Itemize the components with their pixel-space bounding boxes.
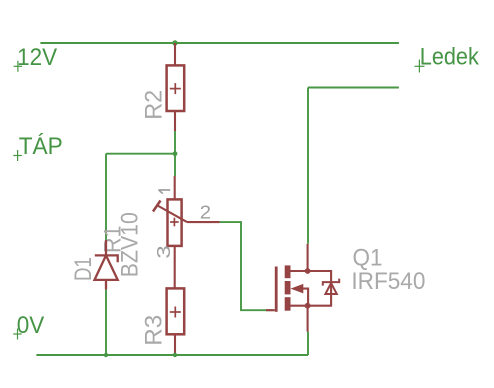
label TÁP cross <box>13 150 21 161</box>
svg-text:D1: D1 <box>70 257 97 281</box>
name R3 <box>141 315 168 346</box>
potentiometer R1 <box>153 176 220 288</box>
wire net +12V top horizontal <box>40 42 399 44</box>
svg-text:IRF540: IRF540 <box>351 268 425 295</box>
drain pin <box>307 244 309 271</box>
svg-text:3: 3 <box>154 245 174 259</box>
svg-text:Ledek: Ledek <box>420 44 480 71</box>
net name Ledek <box>420 44 480 71</box>
junction dot drain <box>305 268 311 274</box>
resistor R3 <box>167 288 185 355</box>
value BZV10 <box>116 212 143 277</box>
gate bar <box>275 267 278 312</box>
junction dot TÁP at vertical net <box>173 151 178 156</box>
wire net Ledek lower horizontal <box>308 87 399 89</box>
junction dot on +12V net at R2 pin <box>172 40 177 45</box>
channel segment drain <box>285 265 291 278</box>
name Q1 <box>353 245 383 272</box>
wire TÁP vertical down to D1 <box>105 154 107 240</box>
body diode triangle <box>325 283 336 294</box>
wire pot wiper to gate <box>220 222 273 310</box>
drain stub <box>291 270 308 272</box>
svg-text:R2: R2 <box>141 90 168 120</box>
net name 0V <box>17 312 45 339</box>
junction dot 0V at D1 <box>104 353 108 357</box>
label +12V cross <box>14 61 23 72</box>
pin number 2 <box>200 203 211 223</box>
wire D1 anode to 0V net <box>105 290 107 355</box>
channel segment source <box>285 297 291 311</box>
svg-text:R3: R3 <box>141 315 168 346</box>
name D1 <box>70 257 97 281</box>
svg-text:2: 2 <box>200 203 211 223</box>
label 0V cross <box>13 329 22 340</box>
name R1 <box>99 226 126 254</box>
net name TÁP <box>19 133 63 160</box>
wire TÁP horizontal <box>106 153 175 155</box>
source stub <box>291 305 308 307</box>
source pin <box>307 306 309 332</box>
wire R2 to pot vertical <box>174 131 176 176</box>
transistor Q1 MOSFET <box>266 244 339 332</box>
pin number 3 <box>154 245 174 259</box>
body arrow <box>291 284 304 294</box>
svg-text:0V: 0V <box>17 312 45 339</box>
svg-text:12V: 12V <box>17 44 57 71</box>
junction dot source <box>305 303 311 309</box>
channel segment body <box>285 281 291 294</box>
junction dot 0V at R3 <box>173 353 177 357</box>
gate pin <box>266 309 275 311</box>
wire drain vertical <box>307 88 309 244</box>
wire 0V bottom horizontal <box>36 354 308 356</box>
resistor R2 <box>167 43 185 131</box>
value IRF540 <box>351 268 425 295</box>
name R2 <box>141 90 168 120</box>
net name 12V <box>17 44 57 71</box>
pin number 1 <box>158 190 170 194</box>
wire source to 0V vertical <box>307 332 309 355</box>
svg-text:BZV10: BZV10 <box>116 212 143 277</box>
label Ledek cross <box>415 60 425 73</box>
svg-text:TÁP: TÁP <box>19 133 63 160</box>
body diode branch <box>308 271 332 306</box>
body diode cathode bar <box>323 279 339 286</box>
zener diode D1 <box>95 240 118 290</box>
